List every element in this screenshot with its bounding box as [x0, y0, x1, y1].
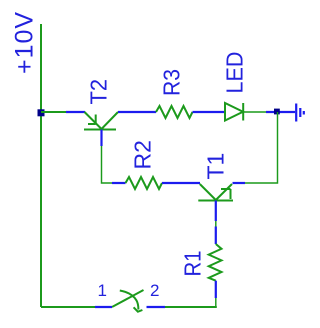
wire T1 emitter lead — [233, 182, 246, 184]
resistor R3 — [156, 106, 193, 118]
wire T1 emitter to LED junction — [245, 112, 278, 183]
wire LED cathode — [243, 111, 268, 113]
wire R2 to T1 collector — [162, 182, 200, 184]
wire R1 top lead — [215, 227, 217, 245]
ground symbol — [296, 104, 304, 122]
svg-text:+10V: +10V — [11, 11, 39, 74]
resistor R2 — [126, 177, 163, 189]
wire to ground — [266, 111, 295, 113]
wire T2 emitter lead — [66, 111, 85, 113]
svg-text:R3: R3 — [159, 69, 185, 96]
diode LED — [225, 103, 243, 121]
wire R3 to LED anode — [193, 111, 226, 113]
wire T1 base to R1 — [215, 221, 217, 227]
svg-text:2: 2 — [150, 281, 159, 300]
wire T2 collector to R3 — [118, 111, 156, 113]
svg-text:T1: T1 — [203, 153, 229, 180]
wire switch right lead — [147, 306, 166, 308]
wire T1 base lead — [215, 201, 217, 222]
wire T2 base lead — [100, 130, 102, 147]
svg-text:LED: LED — [222, 52, 248, 94]
wire rail to T2 emitter — [41, 111, 66, 113]
transistor T2 (PNP) — [84, 112, 118, 130]
svg-text:R1: R1 — [180, 251, 206, 277]
switch blade — [112, 290, 144, 307]
junction dot LED/ground/T1 emitter — [274, 109, 280, 115]
wire switch left lead — [95, 306, 112, 308]
wire R2 left lead — [112, 182, 126, 184]
junction dot rail/T2 emitter — [38, 109, 45, 116]
svg-text:R2: R2 — [130, 140, 156, 169]
wire T2 base to R2 — [102, 146, 113, 183]
wire R1 bottom lead — [215, 281, 217, 298]
transistor T1 (NPN) — [198, 184, 233, 201]
wire +10V rail — [40, 24, 42, 307]
resistor R1 — [209, 244, 222, 281]
wire R1 to bottom rail — [215, 298, 217, 307]
switch actuation arrow — [120, 291, 143, 312]
svg-text:T2: T2 — [86, 79, 112, 105]
wire bottom left — [41, 306, 95, 308]
svg-text:1: 1 — [98, 281, 107, 300]
